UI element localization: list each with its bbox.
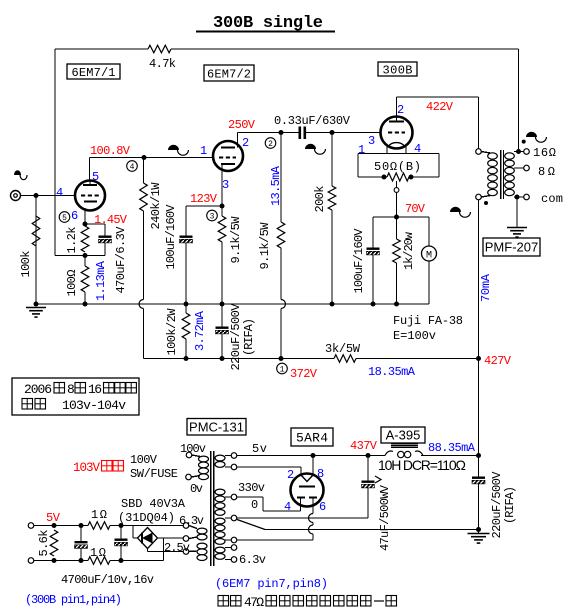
label 5v xyxy=(252,442,267,456)
wire 70V rail xyxy=(373,216,429,218)
label 4700uF xyxy=(61,573,154,587)
pin 1 label U2 xyxy=(200,144,207,158)
svg-text:70mA: 70mA xyxy=(479,273,493,302)
svg-text:2006: 2006 xyxy=(24,382,52,397)
wire feedback left drop xyxy=(54,49,56,256)
node 5V xyxy=(46,511,61,525)
tube box 300B xyxy=(378,62,417,77)
label 3.72mA xyxy=(193,310,207,351)
wire lower tap xyxy=(225,537,237,543)
transformer PMC primary coil xyxy=(199,456,209,480)
svg-text:4700uF/10v,16v: 4700uF/10v,16v xyxy=(61,573,154,587)
tube 300B plate xyxy=(389,117,404,122)
svg-text:427V: 427V xyxy=(484,354,512,368)
node 437V xyxy=(350,439,378,458)
svg-text:SBD 40V3A: SBD 40V3A xyxy=(121,497,186,511)
svg-text:5: 5 xyxy=(62,214,67,223)
op-amp 6EM7/1 envelope xyxy=(75,181,105,211)
svg-text:1.13mA: 1.13mA xyxy=(94,260,108,301)
svg-text:330v: 330v xyxy=(238,481,265,495)
node circled2 xyxy=(265,138,276,149)
svg-text:5: 5 xyxy=(92,170,99,184)
capacitor 220uF/500V b xyxy=(472,456,517,539)
label 103V input xyxy=(73,461,124,476)
tube 6EM7/1 grid xyxy=(81,195,100,197)
wire 240k to 372V bus xyxy=(143,309,145,359)
transformer PMC HV winding upper xyxy=(215,489,225,515)
pin 2 label V3 xyxy=(287,468,294,482)
svg-text:SW/FUSE: SW/FUSE xyxy=(130,467,178,481)
transformer OPT primary coil xyxy=(488,153,498,196)
pin 5 label U1 xyxy=(92,170,99,184)
op-amp 300B envelope xyxy=(381,117,413,149)
node 88.35mA junction xyxy=(428,441,481,458)
resistor 1ohm b xyxy=(88,546,110,564)
terminal 2.5v bottom xyxy=(183,549,189,555)
transformer OPT primary terminal bottom xyxy=(476,194,482,200)
wire cap a down xyxy=(184,243,189,307)
wire cap down xyxy=(104,243,106,256)
transformer PMC HV winding lower xyxy=(215,518,225,544)
input jack xyxy=(11,191,21,201)
svg-text:6: 6 xyxy=(71,209,78,223)
wire feedback top xyxy=(55,48,519,50)
probe OPT primary xyxy=(450,207,470,217)
pin 3 label 300B xyxy=(368,134,375,148)
svg-text:2: 2 xyxy=(287,468,294,482)
svg-text:240k/1W: 240k/1W xyxy=(149,182,163,230)
diode bridge SBD xyxy=(138,528,158,549)
wire plate to OPT xyxy=(397,97,479,149)
wire plate U1 to grid U2 xyxy=(90,157,214,159)
label 70mA xyxy=(479,273,493,302)
svg-text:3: 3 xyxy=(368,134,375,148)
wire pin6 down xyxy=(237,498,313,541)
node input junction xyxy=(34,193,39,198)
resistor 100k/2W xyxy=(165,304,190,359)
svg-text:16: 16 xyxy=(88,382,102,397)
node com tap xyxy=(514,192,563,206)
transformer PMC 6.3v winding right xyxy=(215,547,225,559)
tube 6EM7/1 cathode xyxy=(84,201,97,203)
wire 9.1k b to bus xyxy=(279,309,284,362)
svg-text:5.6k: 5.6k xyxy=(37,530,51,557)
tube 6EM7/2 cathode xyxy=(221,163,235,165)
terminal 5V bottom xyxy=(28,558,34,564)
node 422V xyxy=(426,100,454,114)
resistor 9.1k/5W b xyxy=(258,133,285,300)
svg-text:1.2k: 1.2k xyxy=(65,227,79,254)
tube 6EM7/2 plate xyxy=(221,133,238,148)
svg-text:100uF/160V: 100uF/160V xyxy=(164,204,178,270)
wire cathode U1 xyxy=(83,208,88,227)
wire hop 9.1k b xyxy=(281,300,286,309)
svg-text:2.5v: 2.5v xyxy=(164,541,190,555)
pin 6 label V3 xyxy=(319,500,326,514)
svg-text:100v: 100v xyxy=(180,442,206,456)
ground input xyxy=(26,302,46,318)
svg-text:100Ω: 100Ω xyxy=(65,270,79,297)
label 2.5v xyxy=(164,541,190,555)
node 123V xyxy=(190,192,218,206)
transformer PMC primary terminal bottom xyxy=(186,474,192,480)
tube box 5AR4 xyxy=(291,428,333,446)
probe coupling xyxy=(305,144,325,154)
tube 6EM7/2 grid xyxy=(219,157,236,159)
pin 3 label U2 xyxy=(222,178,229,192)
terminal 6.3v left xyxy=(183,523,189,529)
resistor 1.2k xyxy=(65,226,89,254)
node 100k2W bottom xyxy=(184,356,189,361)
svg-text:300B single: 300B single xyxy=(213,14,323,33)
op-amp 6EM7/2 envelope xyxy=(213,141,243,171)
wire filament pins xyxy=(387,147,406,154)
svg-text:8: 8 xyxy=(317,467,324,481)
pin 1 label 300B xyxy=(358,143,365,157)
label 0 tap xyxy=(251,498,258,512)
svg-text:8: 8 xyxy=(67,382,75,397)
label 6.3v right xyxy=(239,553,266,567)
svg-text:4: 4 xyxy=(130,163,135,172)
label 1.13mA xyxy=(94,260,108,301)
svg-text:103V: 103V xyxy=(73,461,100,475)
svg-text:100V: 100V xyxy=(130,453,158,467)
wire cathode U2 xyxy=(220,164,225,209)
svg-text:4.7k: 4.7k xyxy=(149,57,176,71)
svg-text:220uF/500V: 220uF/500V xyxy=(490,471,504,539)
svg-text:422V: 422V xyxy=(426,100,454,114)
svg-text:4: 4 xyxy=(284,500,291,514)
inductor choke A-395 xyxy=(378,444,466,473)
wire PMC primary stubs xyxy=(192,455,201,477)
svg-text:100k: 100k xyxy=(19,251,33,278)
wire cathode bottom xyxy=(55,253,105,258)
transformer PMC 5v winding xyxy=(215,455,225,467)
wire 6.3v right taps xyxy=(225,545,237,563)
node circled3 xyxy=(207,210,218,221)
transformer PMC heater winding a xyxy=(197,528,207,540)
label 6EM7 pins xyxy=(215,577,328,591)
tube 300B grid xyxy=(388,132,405,134)
wire 240k down xyxy=(143,211,145,300)
inductor box A-395 xyxy=(381,427,425,443)
wire 0 tap xyxy=(225,515,237,521)
wire 100k drop xyxy=(35,196,37,305)
resistor 50ohm hum pot xyxy=(358,154,439,218)
pin 4 label V3 xyxy=(284,500,291,514)
tube 5AR4 filament xyxy=(299,475,315,487)
resistor 4.7k xyxy=(148,45,176,71)
pin 2 label U2 xyxy=(242,136,249,150)
wire 123V left xyxy=(186,206,222,237)
svg-text:6EM7/2: 6EM7/2 xyxy=(207,67,251,81)
wire input to grid xyxy=(21,195,75,197)
wire CT lower line xyxy=(265,529,479,531)
probe stage2 grid xyxy=(168,145,188,155)
wire OPT primary stubs xyxy=(482,152,491,198)
svg-text:1: 1 xyxy=(358,143,365,157)
transformer OPT primary terminal top xyxy=(476,149,482,155)
svg-text:6.3v: 6.3v xyxy=(239,553,266,567)
probe OPT sec top xyxy=(526,132,546,142)
wire 240k top xyxy=(143,158,145,184)
svg-text:3k/5W: 3k/5W xyxy=(325,342,361,356)
wire B+ rail xyxy=(478,200,480,359)
svg-text:PMC-131: PMC-131 xyxy=(189,419,244,434)
svg-text:123V: 123V xyxy=(190,192,218,206)
svg-text:(RIFA): (RIFA) xyxy=(503,486,517,524)
wire pin8 up xyxy=(311,453,316,475)
svg-text:220uF/500V: 220uF/500V xyxy=(229,303,243,371)
svg-text:0v: 0v xyxy=(190,482,203,496)
pin 6 label U1 xyxy=(71,209,78,223)
svg-text:10H DCR=110Ω: 10H DCR=110Ω xyxy=(378,457,466,473)
svg-text:1: 1 xyxy=(200,144,207,158)
svg-text:13.5mA: 13.5mA xyxy=(269,165,283,206)
tube box 6EM7/2 xyxy=(204,65,254,81)
wire 300B plate up xyxy=(396,97,398,117)
node 1.45V xyxy=(94,213,128,227)
svg-text:100.8V: 100.8V xyxy=(90,144,131,158)
wire 330v tap xyxy=(225,494,237,500)
wire ground bus xyxy=(36,303,429,305)
wire 437V rail xyxy=(237,455,479,457)
svg-text:6: 6 xyxy=(319,500,326,514)
wire cathode node right xyxy=(85,224,105,237)
label 13.5mA xyxy=(269,165,283,206)
node 9.1k a bottom xyxy=(220,302,225,307)
pin 4 label 300B xyxy=(414,142,421,156)
wire plate U1 up xyxy=(89,158,91,182)
svg-text:2: 2 xyxy=(268,140,273,149)
transformer PMC core xyxy=(211,451,214,566)
svg-text:9.1k/5W: 9.1k/5W xyxy=(229,216,243,264)
svg-text:250V: 250V xyxy=(228,118,256,132)
svg-text:com: com xyxy=(541,192,563,206)
capacitor 100uF/160V a xyxy=(164,204,193,270)
wire feedback right drop xyxy=(518,49,520,152)
node 200k junction xyxy=(330,130,335,135)
wire bridge right xyxy=(158,538,184,561)
wire bridge step xyxy=(133,526,138,539)
wire bridge bottom xyxy=(148,549,184,552)
label 100V SW/FUSE xyxy=(130,453,178,481)
transformer box PMC-131 xyxy=(187,419,246,436)
resistor 5.6k xyxy=(37,523,58,563)
resistor 200k xyxy=(313,133,336,307)
svg-text:E=100v: E=100v xyxy=(393,329,436,343)
svg-text:PMF-207: PMF-207 xyxy=(485,240,538,255)
node 8ohm tap xyxy=(514,165,555,179)
resistor 1ohm a xyxy=(88,508,110,529)
svg-text:0.33uF/630V: 0.33uF/630V xyxy=(274,114,351,128)
capacitor 4700uF b xyxy=(115,523,128,563)
svg-text:1Ω: 1Ω xyxy=(90,546,106,560)
resistor 100ohm xyxy=(65,256,89,305)
op-amp 5AR4 envelope xyxy=(291,474,324,507)
svg-text:A-395: A-395 xyxy=(386,428,421,443)
node 70V xyxy=(394,202,426,220)
transformer PMC heater winding b xyxy=(197,543,207,560)
svg-text:5AR4: 5AR4 xyxy=(296,431,328,446)
capacitor 4700uF a xyxy=(75,523,88,563)
svg-text:(6EM7 pin7,pin8): (6EM7 pin7,pin8) xyxy=(215,577,328,591)
transformer OPT phase dot secondary xyxy=(522,140,526,144)
svg-text:47Ω: 47Ω xyxy=(244,595,264,609)
wire 5v taps xyxy=(225,453,237,470)
wire heater stubs xyxy=(189,526,197,552)
svg-text:1Ω: 1Ω xyxy=(91,508,107,522)
svg-text:100k/2W: 100k/2W xyxy=(165,308,179,356)
svg-text:5v: 5v xyxy=(252,442,267,456)
node 427V xyxy=(476,354,512,368)
svg-text:300B: 300B xyxy=(383,63,413,77)
probe input xyxy=(14,170,27,179)
wire cap to 300B grid xyxy=(306,132,381,134)
svg-text:0: 0 xyxy=(251,498,258,512)
label 0v xyxy=(190,482,203,496)
tube 300B filament xyxy=(388,143,405,147)
svg-text:470uF/6.3V: 470uF/6.3V xyxy=(114,226,128,294)
transformer OPT phase dot primary xyxy=(484,201,488,205)
svg-text:9.1k/5W: 9.1k/5W xyxy=(258,222,272,270)
svg-text:200k: 200k xyxy=(313,186,327,213)
wire 372V bus left xyxy=(144,358,335,360)
svg-text:50Ω(B): 50Ω(B) xyxy=(374,160,421,174)
wire heater top xyxy=(34,525,183,527)
pin 2 label 300B xyxy=(397,103,404,117)
node circled4 xyxy=(127,161,138,172)
svg-text:372V: 372V xyxy=(290,367,318,381)
resistor 1k/20w xyxy=(393,217,416,307)
svg-text:47uF/500WV: 47uF/500WV xyxy=(378,484,392,551)
title 300B single xyxy=(196,14,335,33)
svg-text:103v-104v: 103v-104v xyxy=(62,398,126,413)
capacitor 47uF/500WV xyxy=(362,456,393,552)
svg-text:3: 3 xyxy=(222,178,229,192)
resistor 100k input xyxy=(19,216,40,278)
label 330v xyxy=(238,481,265,495)
node grid300B junction a xyxy=(279,130,284,135)
transformer box PMF-207 xyxy=(483,238,540,256)
meter M xyxy=(422,217,437,304)
svg-text:1: 1 xyxy=(280,365,285,374)
wire 5v lower to pin2 xyxy=(237,467,301,475)
resistor 3k/5W xyxy=(325,342,361,362)
wire plate U2 to cap xyxy=(238,132,299,134)
node circled5 xyxy=(59,212,70,223)
label 6.3v left xyxy=(179,514,204,528)
svg-text:6.3v: 6.3v xyxy=(179,514,204,528)
svg-text:3: 3 xyxy=(210,212,215,221)
transformer OPT core xyxy=(501,150,504,199)
capacitor 470uF/6.3V xyxy=(99,226,129,294)
transformer PMC primary terminal top xyxy=(186,452,192,458)
label Fuji FA-38 xyxy=(393,314,463,343)
svg-text:6EM7/1: 6EM7/1 xyxy=(72,66,116,80)
wire 372V bus right xyxy=(356,358,479,360)
ground main xyxy=(468,527,490,543)
svg-text:100uF/160V: 100uF/160V xyxy=(352,228,366,294)
wire CT diagonal xyxy=(237,520,265,530)
capacitor 220uF/500V a xyxy=(216,303,257,371)
terminal 2.5v top xyxy=(183,536,189,542)
label 18.35mA xyxy=(368,365,416,379)
tube box 6EM7/1 xyxy=(67,64,120,80)
svg-text:88.35mA: 88.35mA xyxy=(428,441,476,455)
node plate junction xyxy=(142,155,147,160)
node circled1 xyxy=(277,363,288,374)
node 100.8V xyxy=(90,144,131,158)
info box measurement xyxy=(12,378,139,415)
svg-text:Fuji FA-38: Fuji FA-38 xyxy=(393,314,463,328)
svg-text:(300B pin1,pin4): (300B pin1,pin4) xyxy=(25,593,122,607)
svg-text:M: M xyxy=(426,251,432,262)
svg-text:18.35mA: 18.35mA xyxy=(368,365,416,379)
svg-text:1k/20w: 1k/20w xyxy=(402,231,416,270)
capacitor 100uF/160V b xyxy=(352,217,380,307)
node cathode gnd junction xyxy=(83,302,88,307)
resistor 9.1k/5W a xyxy=(218,206,243,304)
svg-text:5V: 5V xyxy=(46,511,61,525)
svg-text:(31DQ04): (31DQ04) xyxy=(118,511,175,525)
tube 5AR4 plates xyxy=(297,496,317,498)
svg-text:16Ω: 16Ω xyxy=(533,146,556,160)
svg-text:1.45V: 1.45V xyxy=(94,213,128,227)
label SBD xyxy=(118,497,186,525)
svg-text:3.72mA: 3.72mA xyxy=(193,310,207,351)
svg-text:437V: 437V xyxy=(350,439,378,453)
ground OPT xyxy=(507,197,527,237)
node 16ohm tap xyxy=(514,146,556,160)
svg-text:4: 4 xyxy=(56,186,63,200)
svg-text:2: 2 xyxy=(397,103,404,117)
label earth note xyxy=(218,595,397,609)
node 220uF bottom xyxy=(220,356,225,361)
capacitor 0.33uF/630V xyxy=(274,114,351,139)
pin 4 label U1 xyxy=(56,186,63,200)
label 100v xyxy=(180,442,206,456)
svg-text:(RIFA): (RIFA) xyxy=(242,318,256,356)
node 250V xyxy=(228,118,256,132)
label 300B pins xyxy=(25,593,122,607)
wire heater bottom xyxy=(34,560,164,562)
resistor 240k/1W xyxy=(140,182,163,230)
wire pin4 down xyxy=(237,497,301,511)
tube 6EM7/1 plate xyxy=(83,181,97,185)
terminal 5V top xyxy=(28,523,34,529)
pin 8 label V3 xyxy=(317,467,324,481)
svg-text:70V: 70V xyxy=(405,202,426,216)
wire hop 240k xyxy=(139,300,144,309)
wire CT line xyxy=(237,517,368,519)
svg-text:2: 2 xyxy=(242,136,249,150)
node 372V xyxy=(290,367,318,381)
wire B+ rail lower xyxy=(478,359,480,456)
transformer OPT secondary coil xyxy=(505,153,515,196)
